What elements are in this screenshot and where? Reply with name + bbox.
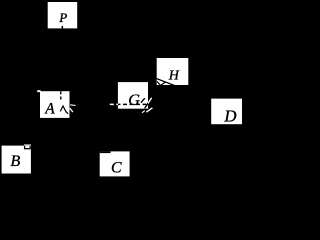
- white hatch fragment below G box: [146, 108, 152, 112]
- white hatch continuation right of G box: [145, 98, 152, 109]
- black notch at top-left of C box: [100, 151, 111, 153]
- white dash left of G box (dashed line continuation): [110, 103, 118, 105]
- svg-text:G: G: [128, 91, 140, 109]
- label box P: [48, 2, 77, 28]
- svg-text:C: C: [111, 160, 122, 177]
- label box A: [40, 91, 70, 118]
- label box H: [157, 58, 189, 85]
- label box G: [118, 82, 148, 109]
- hatch mark 1 in G box: [141, 98, 145, 102]
- arrowhead caret in A box: [60, 106, 68, 114]
- svg-text:D: D: [223, 106, 236, 125]
- dashed vertical line in A box: [60, 91, 62, 102]
- svg-text:H: H: [168, 69, 180, 84]
- svg-text:B: B: [10, 152, 20, 170]
- label box C: [100, 151, 130, 176]
- right-angle square at top-right of B box (white part above box): [25, 145, 31, 149]
- white dash right of A box: [70, 104, 75, 107]
- right-angle square at top-right of B box (black part inside box): [25, 145, 31, 149]
- svg-text:P: P: [58, 10, 67, 25]
- hatch mark 2 in G box: [145, 98, 152, 109]
- white diagonal right of A box: [70, 108, 73, 112]
- white tick at top-left corner of A box: [37, 90, 40, 92]
- line through H box bottom-left: [153, 77, 182, 88]
- label box B: [2, 146, 31, 174]
- small white fragment below G box: [142, 111, 145, 113]
- dashed line through G box: [110, 103, 148, 105]
- label box D: [211, 99, 242, 125]
- svg-text:A: A: [44, 100, 55, 117]
- angle arc at H box corner: [157, 82, 166, 86]
- tick below P box: [62, 26, 64, 29]
